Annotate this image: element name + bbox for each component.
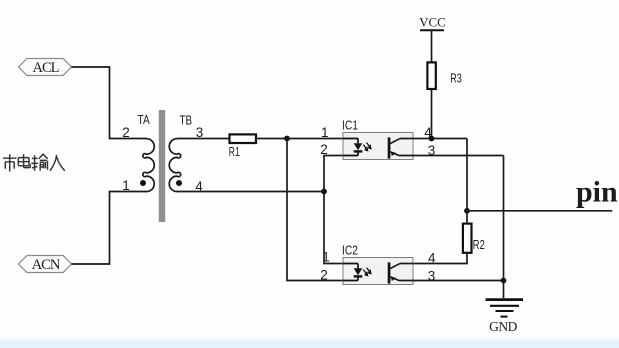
- svg-text:1: 1: [322, 250, 330, 265]
- transformer secondary winding TB: [169, 139, 180, 192]
- wire R3 to IC1 pin4 net: [431, 90, 433, 139]
- transformer core: [159, 110, 165, 222]
- wire TB pin3 to R1: [177, 138, 229, 140]
- svg-text:4: 4: [428, 250, 436, 265]
- wire IC1 pin3 down to GND node: [503, 156, 505, 299]
- IC1 phototransistor: [388, 137, 400, 158]
- svg-text:2: 2: [320, 267, 328, 282]
- wire collector net down to pin node: [466, 139, 468, 211]
- wire VCC to R3: [431, 30, 433, 62]
- wire node to R2: [466, 211, 468, 224]
- junction node after R1: [284, 136, 290, 142]
- port ACN: [19, 256, 72, 273]
- wire R2 to IC2 pin4: [413, 253, 467, 263]
- svg-text:VCC: VCC: [419, 15, 446, 30]
- wire ACL to TA pin 2: [72, 67, 147, 139]
- power VCC: [419, 15, 446, 31]
- wire ACN to TA pin 1: [72, 192, 147, 265]
- wire TB pin4 to node: [177, 191, 324, 193]
- svg-text:IC1: IC1: [342, 119, 358, 133]
- svg-text:R1: R1: [229, 145, 240, 159]
- transformer T primary winding TA: [143, 139, 154, 192]
- port ACL: [19, 59, 72, 76]
- wire pin output: [467, 210, 612, 212]
- IC2 LED: [343, 264, 362, 281]
- svg-text:TB: TB: [180, 114, 193, 128]
- svg-text:2: 2: [320, 142, 328, 157]
- resistor R2: [463, 224, 472, 253]
- IC2 LED light arrows: [363, 268, 371, 276]
- IC2 phototransistor: [388, 262, 400, 283]
- svg-text:2: 2: [122, 125, 130, 140]
- svg-text:ACN: ACN: [32, 257, 61, 273]
- IC1 pin3 wire: [400, 155, 504, 157]
- svg-text:1: 1: [122, 178, 130, 193]
- svg-text:1: 1: [321, 125, 329, 140]
- junction node on TB pin4 wire: [321, 189, 327, 195]
- polarity dot TB pin4: [176, 180, 182, 186]
- wire R1 to IC1 pin1: [256, 138, 358, 140]
- polarity dot TA pin1: [140, 180, 146, 186]
- svg-text:TA: TA: [138, 113, 151, 127]
- label 市电输入: [3, 154, 65, 171]
- svg-text:pin: pin: [576, 176, 618, 209]
- IC1 pin4 wire to node: [400, 138, 467, 140]
- junction node pin output: [464, 208, 470, 214]
- IC2 pin3 wire to GND: [400, 280, 504, 282]
- IC2 pin4 wire: [400, 263, 413, 265]
- IC1 LED: [343, 139, 362, 156]
- svg-text:R2: R2: [473, 238, 485, 252]
- resistor R1: [230, 134, 257, 143]
- resistor R3: [427, 62, 435, 89]
- junction node R3 / IC1 pin4: [429, 136, 435, 142]
- ground: [486, 300, 524, 317]
- wire junction down to IC2 pin2: [287, 139, 358, 281]
- svg-text:IC2: IC2: [342, 244, 358, 258]
- svg-text:ACL: ACL: [33, 60, 59, 76]
- wire node to IC1 pin2 and IC2 pin1: [324, 156, 343, 264]
- IC1 LED light arrows: [363, 143, 371, 151]
- optocoupler IC1: [342, 119, 413, 160]
- svg-text:R3: R3: [450, 72, 462, 86]
- svg-text:GND: GND: [489, 319, 517, 334]
- optocoupler IC2: [342, 244, 413, 285]
- junction node GND: [501, 278, 507, 284]
